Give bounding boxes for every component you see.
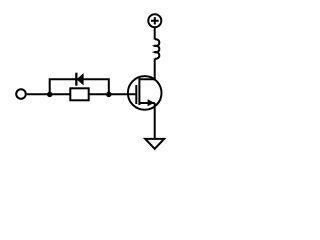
MOSFET Q1 source lead <box>139 102 154 104</box>
diode D1 triangle (pointing left) <box>77 73 84 86</box>
node B (right junction dot) <box>106 92 112 98</box>
supply plus sign <box>151 17 159 24</box>
wire: drain connection (channel to vertical riser) <box>139 59 154 80</box>
wire: terminal to resistor network (main gate wire y=94.2) <box>27 93 71 95</box>
MOSFET Q1 gate bar <box>135 85 137 104</box>
wire: top branch loop (left riser, top run, right riser) <box>50 79 109 94</box>
inductor L1 (3-loop coil) <box>155 39 160 58</box>
wire: supply to inductor <box>154 27 156 39</box>
resistor R1 <box>70 88 88 100</box>
wire: source to ground <box>154 103 156 139</box>
input terminal <box>16 89 26 99</box>
wire: resistor to MOSFET gate <box>89 93 136 95</box>
ground <box>145 139 164 149</box>
node A (left junction dot) <box>47 92 53 98</box>
MOSFET Q1 source arrow <box>148 99 155 106</box>
supply terminal circle <box>148 14 161 27</box>
diode D1 cathode bar <box>75 73 77 86</box>
MOSFET Q1 body circle <box>128 76 162 110</box>
MOSFET Q1 channel bar <box>138 78 140 105</box>
